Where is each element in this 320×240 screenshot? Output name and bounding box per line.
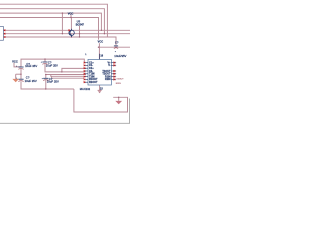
gnd arrow bottom right — [115, 101, 122, 104]
wire pin15 — [99, 85, 101, 90]
wire net3 branch — [61, 13, 63, 34]
junction dots — [20, 12, 119, 98]
wire gnd rail1 — [15, 74, 17, 79]
wire jog to C2plus pin — [62, 68, 86, 72]
pin name texts left column — [89, 61, 98, 84]
svg-text:VCC: VCC — [68, 11, 74, 15]
pin 16 wire — [99, 54, 101, 60]
transistor Q1 — [69, 29, 74, 37]
capacitor C2 — [42, 62, 47, 64]
svg-text:10uF 35V: 10uF 35V — [47, 80, 59, 84]
wire collector Q1 — [70, 18, 72, 29]
wire C2 top to pin C1+ — [21, 59, 84, 67]
frame line bottom — [0, 122, 130, 124]
wire C1 bottom to rail — [20, 69, 22, 79]
svg-text:R2OUT: R2OUT — [89, 81, 98, 84]
svg-text:T2OUT: T2OUT — [116, 79, 124, 81]
red X no-connect marks left pins — [84, 62, 86, 83]
svg-text:10uF 35V: 10uF 35V — [46, 64, 58, 68]
wire net1 top — [0, 4, 107, 37]
wire VCC left — [14, 63, 21, 67]
wire fan line w2 — [46, 75, 86, 79]
svg-text:10uF/35V: 10uF/35V — [114, 54, 126, 58]
capacitor C5 — [114, 46, 118, 49]
IC U2 MAX232 box — [88, 59, 111, 85]
svg-text:R2IN: R2IN — [116, 83, 121, 85]
red X marks right pins — [113, 62, 115, 81]
wire node A row — [4, 29, 130, 31]
svg-text:R2IN: R2IN — [105, 78, 111, 81]
svg-text:C?: C? — [115, 40, 119, 44]
wire node C row — [4, 37, 116, 45]
red X connector pins — [4, 30, 6, 38]
wire C2 bottom — [45, 64, 86, 72]
svg-text:VCC: VCC — [98, 39, 104, 43]
gnd arrow under IC — [98, 90, 102, 93]
capacitor C4 — [43, 78, 48, 80]
pin name texts right column — [102, 61, 111, 81]
wire net3 — [0, 13, 101, 30]
svg-text:BC547: BC547 — [76, 23, 85, 27]
wire VCC to pin16 — [98, 43, 100, 59]
red X transistor base — [68, 30, 70, 32]
wire C3 bottom — [21, 82, 74, 89]
svg-text:10uF 35V: 10uF 35V — [25, 79, 37, 83]
left pins — [84, 63, 88, 83]
svg-text:V-: V- — [108, 64, 111, 67]
svg-text:MAX232: MAX232 — [80, 87, 91, 91]
wire V+ rail — [99, 46, 131, 48]
capacitor C3 — [18, 79, 23, 81]
wire VCC stub Q1 — [70, 15, 72, 18]
right pins — [111, 63, 116, 80]
frame vertical right — [128, 99, 130, 124]
svg-text:10uF 35V: 10uF 35V — [25, 64, 37, 68]
gnd arrow left — [12, 79, 19, 82]
wire C4 bottom — [45, 80, 47, 89]
wire gnd tap — [118, 97, 120, 101]
wire C2 top stub — [44, 59, 46, 62]
wire net2 — [0, 9, 104, 34]
connector J1 — [0, 27, 5, 41]
wire net4 VCC — [0, 18, 99, 40]
wire node B row — [4, 33, 130, 35]
capacitor C1 — [18, 67, 23, 69]
wire fan line w3 — [51, 75, 86, 77]
wire bottom loop — [74, 89, 128, 112]
wire fan line w4 — [52, 76, 84, 78]
svg-text:VCC: VCC — [12, 60, 18, 64]
wire node D vertical — [79, 26, 81, 37]
